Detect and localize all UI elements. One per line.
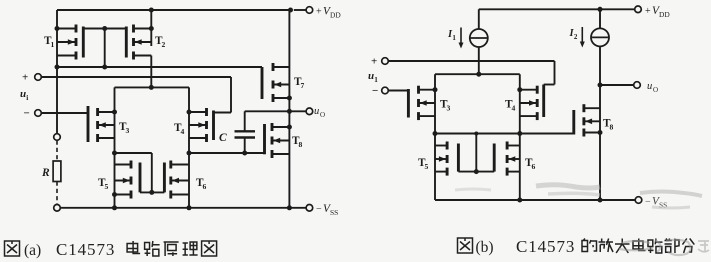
wire VDD top rail (right circuit) xyxy=(479,8,635,10)
node rail T5 xyxy=(112,205,117,210)
input terminal + (left circuit) xyxy=(22,72,41,84)
label I1 with arrow xyxy=(447,28,464,49)
resistor R with external pin circles and dashed leads xyxy=(53,134,61,211)
label T7 xyxy=(294,76,305,90)
node tie-line junction left xyxy=(55,65,60,70)
wire tie line (T1 drain node) to T7 gate xyxy=(57,66,262,68)
wire diff pair tail line xyxy=(115,86,190,88)
node rail output column xyxy=(287,205,292,210)
node rail T6 xyxy=(187,205,192,210)
svg-text:3: 3 xyxy=(126,126,130,135)
capacitor C xyxy=(235,111,256,153)
wire VSS bottom rail (right circuit) xyxy=(435,199,635,201)
node compensation cap bottom junction xyxy=(242,151,247,156)
gate bar T5 (right) xyxy=(457,144,460,172)
wire T3 column (right) xyxy=(434,74,436,200)
label uO (right) xyxy=(647,81,658,94)
watermark text over caption b xyxy=(619,240,709,255)
svg-text:+: + xyxy=(645,6,651,17)
node T2 top lead junction xyxy=(149,26,154,31)
gate bar T7 xyxy=(261,67,264,99)
svg-text:u: u xyxy=(647,81,652,92)
svg-text:i: i xyxy=(26,94,28,102)
svg-text:DD: DD xyxy=(330,11,341,20)
svg-text:O: O xyxy=(653,86,658,94)
svg-text:6: 6 xyxy=(203,182,207,191)
svg-text:DD: DD xyxy=(659,10,670,19)
node tail junction (from T2 drain) xyxy=(149,85,154,90)
svg-text:O: O xyxy=(320,111,325,119)
wire left bias column (T1 drain/gate node down to R pin) xyxy=(56,10,58,135)
wire T4 column (right) xyxy=(519,74,521,200)
wire VDD top rail (left circuit) xyxy=(57,9,291,11)
transistor T5b xyxy=(435,142,447,176)
transistor T4 xyxy=(189,108,207,142)
transistor T8 xyxy=(272,123,289,158)
svg-text:7: 7 xyxy=(301,81,305,90)
gate bar T6 xyxy=(163,163,166,193)
node gates drop top (right) xyxy=(474,132,478,136)
label I2 with arrow xyxy=(569,27,585,48)
power terminal +VDD (right circuit) xyxy=(635,6,642,13)
node T4 source junction xyxy=(187,110,192,115)
wire noninverting input to T4 gate (right) xyxy=(388,61,554,85)
node T4 drain / T6 drain junction xyxy=(187,151,192,156)
label T8 (right) xyxy=(603,118,614,132)
transistor T6b xyxy=(507,142,520,176)
label +VDD (left) xyxy=(316,6,341,20)
svg-text:−: − xyxy=(372,85,378,97)
node T7 drain junction xyxy=(287,96,292,101)
gate bar T4 (right) xyxy=(542,85,545,118)
input terminal + (right circuit) xyxy=(371,56,388,68)
wire T3 column (tail to mirror) xyxy=(114,87,116,208)
wire output lead xyxy=(245,110,306,112)
svg-text:5: 5 xyxy=(425,162,429,171)
node output junction xyxy=(287,109,292,114)
label u1 xyxy=(368,70,378,84)
svg-text:5: 5 xyxy=(105,182,109,191)
node tail from I1 xyxy=(476,72,481,77)
label T5 (right) xyxy=(418,157,429,171)
node T5 source junction xyxy=(112,192,117,197)
caption figure (b) xyxy=(458,237,576,256)
label T5 xyxy=(98,177,109,191)
transistor T1 xyxy=(57,25,76,60)
gate bar T3 xyxy=(87,106,90,142)
input terminal - (left circuit) xyxy=(24,108,42,120)
wire T5-T6 gate link xyxy=(140,191,164,193)
node gate-tie junction xyxy=(102,65,107,70)
label ui xyxy=(20,88,28,102)
gate bar T3 (right) xyxy=(407,89,410,118)
power terminal -VSS (left circuit) xyxy=(306,205,313,212)
label T3 xyxy=(119,121,130,135)
svg-text:−: − xyxy=(24,108,30,120)
gate bar T2 xyxy=(125,27,128,58)
transistor T3 xyxy=(98,108,115,142)
transistor T3b xyxy=(419,86,436,120)
label T6 (right) xyxy=(525,157,536,171)
wire inverting input to T3 gate xyxy=(41,112,88,114)
node T4 drain / T6 drain junction (right) xyxy=(517,131,522,136)
node T3 drain / T5 drain junction xyxy=(112,151,117,156)
node T8 drain junction xyxy=(287,125,292,130)
wire noninverting input to T4 gate xyxy=(41,77,231,113)
label R xyxy=(41,167,50,179)
wire T1 gate to common gate node xyxy=(83,28,104,30)
svg-text:6: 6 xyxy=(532,162,536,171)
label C xyxy=(219,132,227,144)
svg-text:+: + xyxy=(371,56,377,68)
node junction top rail over T2 xyxy=(149,8,154,13)
gate bar T8 (right) xyxy=(572,110,575,135)
wire mirror line with gates drop (right) xyxy=(435,134,520,172)
transistor T5 xyxy=(115,161,132,199)
transistor T2 xyxy=(134,25,152,60)
output terminal uO (left circuit) xyxy=(306,108,313,115)
transistor T8b xyxy=(584,104,600,136)
wire T2 drain down to tail line xyxy=(150,56,152,88)
label T1 xyxy=(44,35,55,49)
wire T5-T6 gate link (right) xyxy=(458,171,494,173)
svg-text:C14573: C14573 xyxy=(516,237,575,256)
node output junction (right) xyxy=(598,83,603,88)
transistor T7 xyxy=(273,63,289,102)
svg-text:3: 3 xyxy=(447,104,451,113)
svg-text:4: 4 xyxy=(181,127,185,136)
label +VDD (right) xyxy=(645,5,670,19)
wire inverting input to T3 gate (right) xyxy=(388,90,408,92)
svg-text:−: − xyxy=(645,197,651,208)
label T3 (right) xyxy=(440,99,451,113)
input terminal - (right circuit) xyxy=(372,85,388,97)
wire tail line (right circuit) xyxy=(435,73,520,75)
label T4 (right) xyxy=(505,99,516,113)
caption figure (a) xyxy=(5,240,116,259)
wire mirror input line to gates drop xyxy=(115,153,152,192)
wire output lead (right) xyxy=(600,84,634,86)
label T4 xyxy=(174,122,185,136)
label -VSS (left) xyxy=(316,203,338,217)
wire second stage line to T8 gate (right) xyxy=(520,133,574,135)
svg-text:C14573: C14573 xyxy=(56,240,115,259)
node T3 source junction xyxy=(112,110,117,115)
svg-text:SS: SS xyxy=(330,208,338,217)
current source I1 xyxy=(470,9,488,74)
svg-text:R: R xyxy=(41,167,50,179)
node junction top rail right xyxy=(288,8,293,13)
svg-text:−: − xyxy=(316,204,322,215)
output terminal uO (right circuit) xyxy=(634,82,641,89)
node T1 drain junction xyxy=(55,26,60,31)
node gate link junction xyxy=(149,190,154,195)
current source I2 xyxy=(591,9,609,46)
svg-text:u: u xyxy=(314,106,319,117)
gate bar T1 xyxy=(82,27,85,58)
node T8 source junction (right) xyxy=(598,130,603,135)
svg-text:1: 1 xyxy=(452,34,456,42)
svg-text:4: 4 xyxy=(512,104,516,113)
node T4 source junction (right) xyxy=(517,87,522,92)
svg-text:1: 1 xyxy=(374,76,378,84)
wire output column (right circuit) xyxy=(599,46,601,200)
gate bar T6 (right) xyxy=(493,144,496,172)
node rail I2 xyxy=(598,7,603,12)
gate bar T5 xyxy=(139,163,142,193)
svg-text:+: + xyxy=(22,72,28,84)
node rail output column (right) xyxy=(598,198,603,203)
label T8 xyxy=(292,135,303,149)
svg-text:2: 2 xyxy=(574,33,578,41)
decorative-free zone: watermark smudges kept as part of scan look xyxy=(455,185,702,208)
wire T2 source column to rail xyxy=(150,10,152,46)
transistor T6 xyxy=(171,161,189,199)
wire output column (VDD rail through T7/T8 to VSS rail) xyxy=(288,10,290,208)
svg-text:8: 8 xyxy=(299,140,303,149)
wire second stage input line (to C and T8 gate) xyxy=(189,152,265,154)
svg-text:+: + xyxy=(316,7,322,18)
wire common gate down to tie line xyxy=(104,29,106,68)
power terminal -VSS (right circuit) xyxy=(635,197,642,204)
power terminal +VDD (left circuit) xyxy=(294,7,313,14)
label T2 xyxy=(155,35,166,49)
gate bar T4 xyxy=(212,111,215,141)
node gate link junction (right) xyxy=(474,169,479,174)
svg-text:C: C xyxy=(219,132,227,144)
svg-text:(b): (b) xyxy=(476,239,494,256)
svg-text:2: 2 xyxy=(162,40,166,49)
label -VSS (right, smudged by watermark) xyxy=(645,196,667,210)
svg-text:8: 8 xyxy=(610,123,614,132)
node T3 drain / T5 drain junction (right) xyxy=(433,131,438,136)
label T6 xyxy=(196,177,207,191)
node T3 source junction (right) xyxy=(433,87,438,92)
wire T2 gate lead xyxy=(105,28,127,30)
node rail T6 column (right) xyxy=(517,198,522,203)
wire T4 column (tail to second stage) xyxy=(188,87,190,208)
transistor T4b xyxy=(520,86,537,120)
svg-text:1: 1 xyxy=(51,40,55,49)
node T1/T2 common gate xyxy=(102,26,107,31)
svg-text:(a): (a) xyxy=(24,242,41,259)
wire VSS bottom rail (left circuit) xyxy=(60,207,306,209)
gate bar T8 xyxy=(263,124,266,154)
label uO (left) xyxy=(314,106,325,119)
